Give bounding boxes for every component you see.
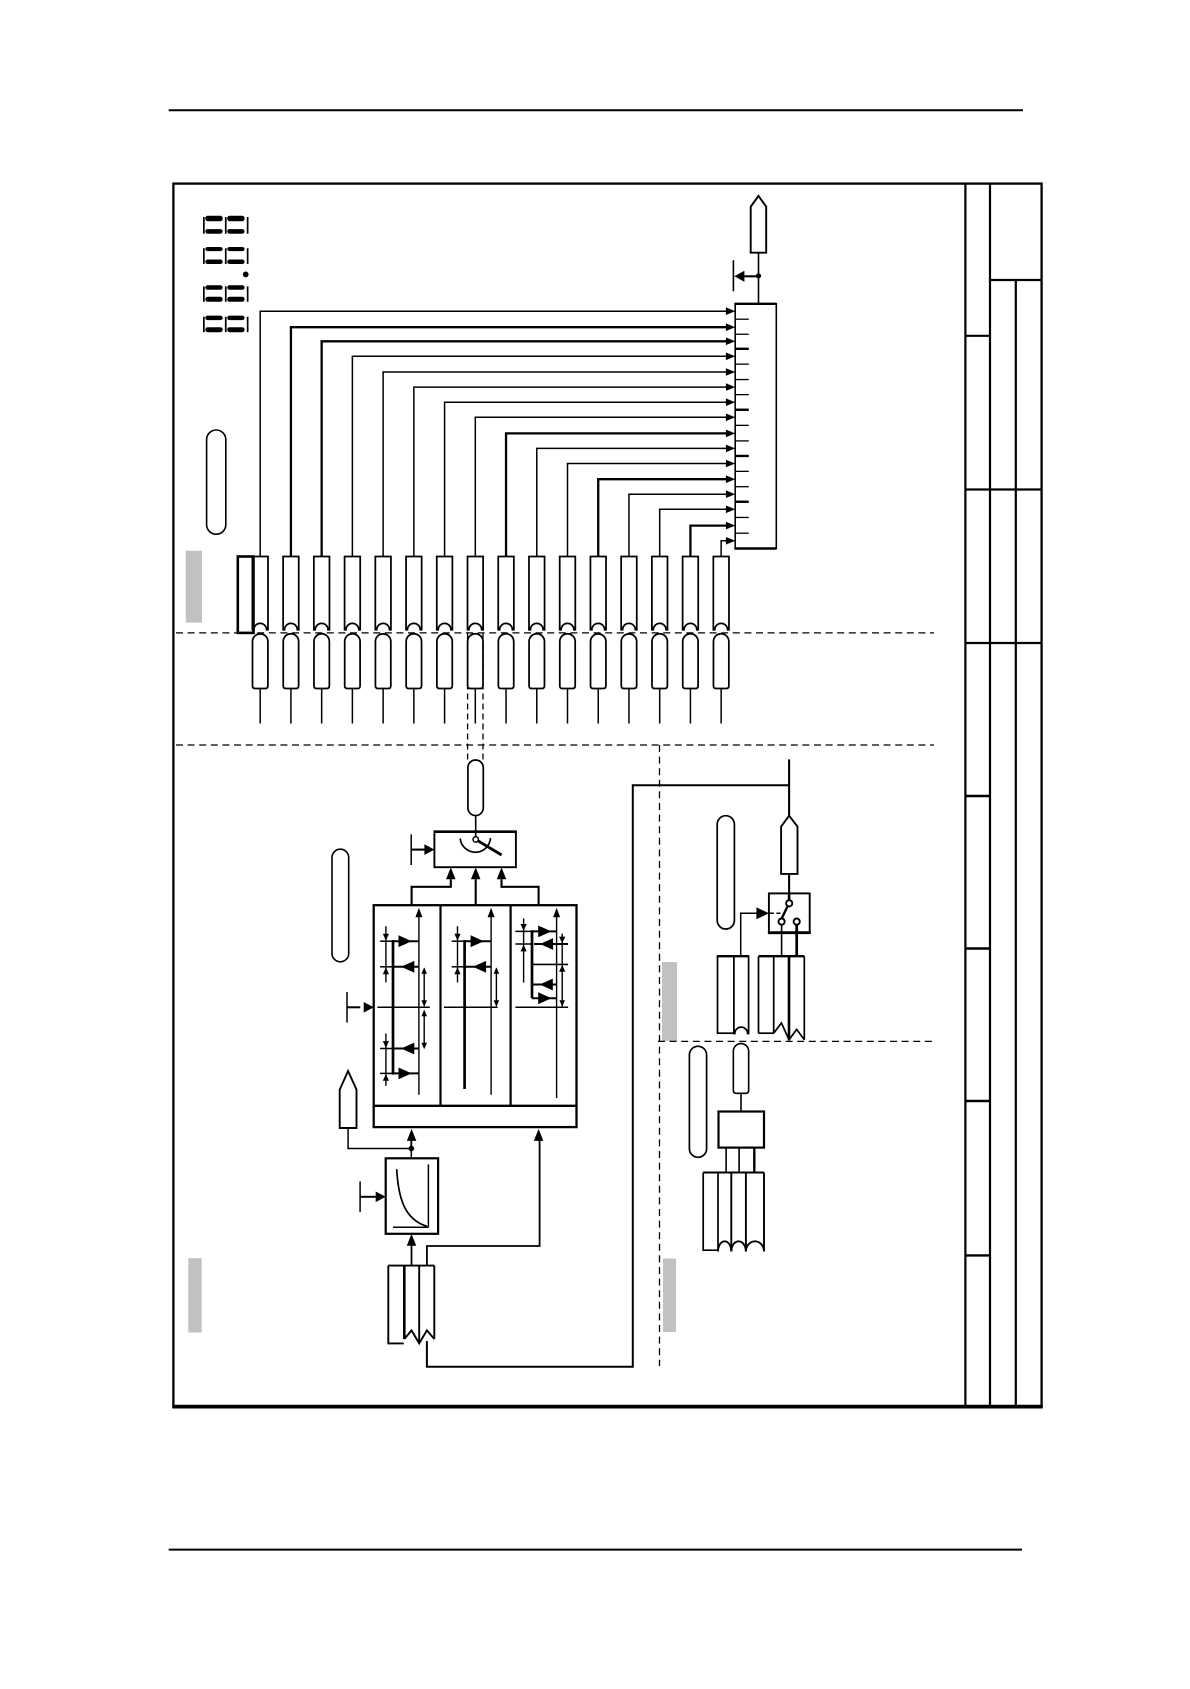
wire below terminal T9 [505, 689, 507, 724]
U3 col3 arrow line right (fourth) [532, 997, 557, 999]
title block row line r8 [965, 1254, 990, 1256]
terminal T3 upper box with screw arc [314, 557, 330, 630]
parameter box PB2 cell dividers [731, 1173, 764, 1252]
parameter box PB bottom edge [759, 1032, 774, 1034]
switch S1 wire to common contact [788, 893, 791, 900]
wire below terminal T8 [474, 689, 476, 724]
selector output node dot [756, 273, 761, 278]
arrowhead selector input 16 [726, 537, 735, 545]
terminal T2 connector capsule [283, 634, 298, 689]
U3 col3 output vertical arrow [556, 911, 558, 1099]
selector pin divider tick 4 [735, 363, 749, 365]
U3 col1 arrow line left (upper) [393, 966, 419, 968]
wire from terminal T15 to selector input 15 [690, 526, 726, 557]
U3 col3 arrow line left (third) [532, 984, 557, 986]
label capsule outline L1 [207, 430, 226, 534]
arrowhead selector input 5 [726, 368, 735, 376]
terminal T5 upper box with screw arc [375, 557, 391, 630]
selector output wire [758, 253, 760, 304]
U3 col1 range arrow upper [423, 968, 425, 1005]
U3 col1 range arrow lower [423, 1011, 425, 1048]
selector pin divider tick 13 [735, 501, 749, 503]
label capsule outline L2 [332, 849, 349, 962]
dashed stub right of connector K1 [482, 634, 484, 760]
wire down to pentagon P3 [788, 785, 790, 816]
terminal T14 upper box with screw arc [652, 557, 668, 630]
U3 col3 right adjust vertical [561, 934, 563, 1007]
arrow into U3 bottom right with tap wire [427, 1141, 540, 1266]
switch S1 bottom bold edge [768, 931, 811, 934]
connector pentagon P1 (to next sheet) [751, 196, 767, 253]
U3 col2 characteristic bold vertical [463, 940, 466, 1089]
wire below terminal T10 [536, 689, 538, 724]
arrowhead selector input 8 [726, 414, 735, 422]
terminal T16 upper box with screw arc [713, 557, 729, 630]
wire U5 output 3 (bold) [753, 1148, 755, 1173]
parameter box PB1 right edge [433, 1266, 435, 1339]
wire capsule K1 to switch U2 [475, 816, 477, 837]
switch S1 dashed control link [770, 912, 781, 914]
arrow from block U3 output a to U2 [412, 879, 451, 905]
wire from terminal T3 to selector input 3 [322, 341, 727, 556]
wire below terminal T16 [720, 689, 722, 724]
switch block U2 [434, 832, 516, 868]
parameter box PB torn bottom [774, 1023, 805, 1040]
terminal T16 connector capsule [713, 634, 728, 689]
wire below terminal T12 [597, 689, 599, 724]
parameter box PA top bold edge [718, 955, 749, 957]
parameter box PB2 torn wave bottom [718, 1241, 764, 1251]
U3 col3 characteristic bold vertical [531, 930, 534, 998]
feedback wire from PB1 to right section [427, 785, 789, 1366]
parameter box PB bold divider [788, 956, 791, 1040]
terminal T9 upper box with screw arc [498, 557, 514, 630]
dashed stub left of connector K1 [467, 634, 469, 760]
wire from terminal T5 to selector input 5 [383, 372, 726, 557]
wire U5 output 1 [725, 1148, 727, 1173]
gray label bar G3 [663, 1259, 676, 1333]
U3 col2 arrow line right [465, 940, 492, 942]
parameter box PB1 cell divider [418, 1266, 420, 1342]
arrowhead selector input 15 [726, 522, 735, 530]
arrowhead selector input 14 [726, 506, 735, 514]
wire below terminal T15 [689, 689, 691, 724]
arrowhead selector input 1 [726, 307, 735, 315]
terminal T4 connector capsule [345, 634, 360, 689]
heading text row 4 (rotated digits) [203, 317, 205, 332]
switch S1 contact right circle [794, 919, 800, 925]
dashed section divider DH2 [176, 744, 934, 746]
filter U4 axis vertical [427, 1164, 429, 1227]
U3 col1 lower adjust cluster [385, 1034, 387, 1086]
arrowhead selector input 7 [726, 398, 735, 406]
terminal T11 connector capsule [560, 634, 575, 689]
title block row line r1 [990, 279, 1042, 281]
wire from terminal T12 to selector input 12 [598, 479, 726, 556]
setting input arrow into U2 [410, 834, 412, 865]
switch S1 contact left circle [779, 919, 785, 925]
control arrow into S1 [756, 907, 769, 919]
ramp/limiter block U3 outline [374, 905, 577, 1127]
heading decimal point [243, 272, 249, 278]
terminal T3 connector capsule [314, 634, 329, 689]
U3 col2 zero axis [444, 1006, 498, 1008]
wire below terminal T14 [659, 689, 661, 724]
selector pin divider tick 5 [735, 379, 749, 381]
U3 col2 adjust cluster [457, 926, 459, 982]
terminal X1 extra bold frame [238, 557, 254, 633]
arrowhead selector input 11 [726, 460, 735, 468]
wire below terminal T11 [567, 689, 569, 724]
U3 col1 arrow line right (lower) [393, 1072, 419, 1074]
title block row line r4 [965, 642, 1041, 644]
U3 col1 output vertical arrow [418, 911, 420, 1095]
terminal T4 upper box with screw arc [345, 557, 361, 630]
switch S1 output wire left [781, 925, 783, 956]
wire from terminal T1 to selector input 1 [260, 311, 726, 556]
wire U5 output 2 [738, 1148, 740, 1173]
heading text row 3 (rotated digits) [203, 286, 205, 301]
arrowhead selector input 3 [726, 338, 735, 346]
heading text row 2 (rotated digits) [203, 248, 205, 264]
wire from terminal T6 to selector input 6 [414, 387, 727, 556]
arrowhead selector input 10 [726, 445, 735, 453]
wire from terminal T14 to selector input 14 [660, 509, 727, 556]
U3 col2 output vertical arrow [490, 911, 492, 1095]
node dot N1 [409, 1146, 415, 1152]
page top rule [169, 109, 1023, 111]
terminal T8 connector capsule [468, 634, 483, 689]
U3 col3 left adjust cluster [523, 918, 525, 982]
U3 col3 zero axis [515, 1006, 568, 1008]
terminal T12 upper box with screw arc [590, 557, 606, 630]
switch block S1 outline [769, 893, 810, 932]
wire pentagon P2 to node [348, 1128, 408, 1149]
switch block U2 top bold edge [434, 830, 517, 833]
title block row line r7 [965, 1100, 990, 1102]
terminal T6 upper box with screw arc [406, 557, 422, 630]
filter block U4 outline [386, 1158, 438, 1234]
heading text row 1 (rotated digits) [203, 217, 205, 234]
selector pin divider tick 8 [735, 424, 749, 426]
terminal T13 upper box with screw arc [621, 557, 637, 630]
filter U4 axis horizontal [393, 1226, 428, 1228]
arrowhead selector input 13 [726, 490, 735, 498]
stub above junction [788, 759, 790, 785]
gray label bar G1 [186, 551, 202, 623]
selector pin divider tick 9 [735, 440, 749, 442]
U3 col3 mid line [532, 963, 568, 965]
parameter box PB top bold edge [759, 955, 805, 957]
gray label bar G4 [188, 1258, 201, 1332]
switch U2 pivot circle [473, 837, 478, 842]
connector pentagon P2 [340, 1071, 357, 1128]
block U3 inner bottom band line [374, 1105, 577, 1107]
selector block U1 [735, 304, 776, 549]
title block row line r5 [965, 795, 990, 797]
U3 col1 upper adjust cluster [385, 926, 387, 982]
arrowhead selector input 2 [726, 323, 735, 331]
dashed section divider DH3 [658, 1040, 935, 1042]
dashed section divider DH1 [176, 632, 934, 634]
selector pin divider tick 14 [735, 516, 749, 518]
U3 col1 zero axis [377, 1006, 429, 1008]
page bottom rule [169, 1549, 1022, 1551]
wire below terminal T5 [382, 689, 384, 724]
terminal T1 connector capsule [253, 634, 268, 689]
wire below terminal T2 [290, 689, 292, 724]
filter U4 decay curve [397, 1169, 427, 1226]
wire from terminal T10 to selector input 10 [537, 448, 727, 556]
connector capsule K1 [468, 760, 483, 816]
switch S1 lever [782, 907, 788, 918]
block U5 outline [719, 1112, 765, 1148]
wire from terminal T13 to selector input 13 [629, 494, 727, 556]
selector pin divider tick 3 [735, 348, 749, 350]
gray label bar G2 [662, 962, 677, 1041]
title block row line r6 [965, 947, 990, 949]
U3 col1 characteristic bold vertical [392, 940, 395, 1075]
wire below terminal T13 [628, 689, 630, 724]
parameter box PB1 bold divider [403, 1266, 406, 1339]
terminal T5 connector capsule [375, 634, 390, 689]
wire from terminal T11 to selector input 11 [568, 464, 727, 557]
drawing frame border [173, 184, 1041, 1407]
wire from terminal T7 to selector input 7 [445, 402, 727, 556]
terminal T12 connector capsule [591, 634, 606, 689]
selector pin divider tick 2 [735, 333, 749, 335]
terminal T10 connector capsule [529, 634, 544, 689]
parameter box PA left cell [718, 956, 734, 1033]
setting input arrow into U3 left [346, 992, 348, 1023]
left tap terminator bar [732, 260, 734, 291]
U3 col2 arrow line left [465, 966, 492, 968]
label capsule outline L4 [689, 1046, 706, 1157]
terminal T11 upper box with screw arc [560, 557, 576, 630]
switch U2 wiper arc [460, 838, 490, 852]
parameter box PB right edge [803, 956, 805, 1040]
wire capsule to block U5 [740, 1093, 742, 1111]
selector block U1 top edge [734, 303, 776, 305]
arrow from block U3 output c to U2 [502, 879, 539, 905]
selector pin divider tick 6 [735, 394, 749, 396]
wire pentagon P3 to switch S1 [788, 874, 790, 894]
U3 col1 arrow line right (upper) [393, 940, 419, 942]
terminal T15 connector capsule [683, 634, 698, 689]
title block row line r3 [965, 488, 1041, 490]
branch arrow to left tap [744, 275, 758, 277]
selector block U1 bottom edge [734, 547, 776, 550]
terminal T13 connector capsule [621, 634, 636, 689]
arrow into U3 bottom left [410, 1141, 412, 1149]
title block column line v1 [964, 184, 966, 1407]
wire from terminal T2 to selector input 2 [291, 327, 727, 556]
dashed vertical divider DV1 [659, 745, 661, 1366]
parameter box PA terminal cell with screw arc [734, 956, 749, 1033]
parameter box PB2 top edge [703, 1172, 764, 1174]
terminal T10 upper box with screw arc [529, 557, 545, 630]
title block column line v2 [989, 184, 991, 1407]
block U3 column divider d2 [510, 905, 512, 1106]
U3 col3 arrow line left (second) [534, 943, 568, 945]
terminal T15 upper box with screw arc [683, 557, 699, 630]
wire below terminal T6 [413, 689, 415, 724]
wire below terminal T4 [351, 689, 353, 724]
terminal T8 upper box with screw arc [468, 557, 484, 630]
wire from terminal T16 to selector input 16 [721, 541, 726, 557]
selector pin divider tick 7 [735, 409, 749, 411]
connector capsule below PA [733, 1044, 748, 1094]
connector pentagon P3 [781, 816, 797, 874]
parameter box PB1 left cell [388, 1266, 403, 1344]
switch S1 common contact circle [786, 900, 792, 906]
terminal T2 upper box with screw arc [283, 557, 299, 630]
selector pin divider tick 11 [735, 470, 749, 472]
terminal T1 upper box with screw arc [252, 557, 268, 630]
selector pin divider tick 12 [735, 486, 749, 488]
selector pin divider tick 1 [735, 318, 749, 320]
switch U2 lever [477, 840, 501, 855]
terminal T7 connector capsule [437, 634, 452, 689]
parameter box PB1 top edge [388, 1265, 434, 1267]
parameter box PB1 torn bottom [404, 1330, 434, 1343]
wire below terminal T3 [321, 689, 323, 724]
arrow from block U3 output b to U2 [475, 879, 477, 905]
wire below terminal T1 [259, 689, 261, 724]
wire below terminal T7 [444, 689, 446, 724]
block U3 column divider d1 [439, 905, 441, 1106]
U3 col3 arrow line right (top) [532, 930, 557, 932]
wire from terminal T9 to selector input 9 [506, 433, 727, 556]
switch S1 output wire right (bold) [795, 925, 798, 956]
terminal T9 connector capsule [498, 634, 513, 689]
wire from terminal T4 to selector input 4 [352, 356, 726, 556]
arrowhead selector input 12 [726, 475, 735, 483]
control wire from parameter box PA right cell [741, 913, 758, 956]
title block row line r2 [965, 335, 990, 337]
parameter box PB2 left cell [703, 1173, 718, 1251]
arrowhead selector input 4 [726, 353, 735, 361]
parameter box PB cell lines [759, 956, 774, 1033]
terminal T7 upper box with screw arc [437, 557, 453, 630]
title block column line v3 [1015, 280, 1017, 1407]
selector pin divider tick 15 [735, 532, 749, 534]
setting input arrow into U4 [359, 1181, 361, 1212]
terminal T6 connector capsule [406, 634, 421, 689]
arrowhead selector input 9 [726, 430, 735, 438]
selector pin divider tick 10 [735, 455, 749, 457]
wire from terminal T8 to selector input 8 [475, 417, 726, 556]
terminal T14 connector capsule [652, 634, 667, 689]
wire node N1 to filter U4 [410, 1149, 412, 1159]
arrowhead selector input 6 [726, 383, 735, 391]
label capsule outline L3 [717, 816, 734, 929]
U3 col2 range arrow [495, 968, 497, 1005]
frame bottom thick edge [172, 1405, 1042, 1409]
U3 col1 arrow line left (lower) [393, 1048, 419, 1050]
arrow from parameter box PB1 into U4 [411, 1247, 413, 1266]
